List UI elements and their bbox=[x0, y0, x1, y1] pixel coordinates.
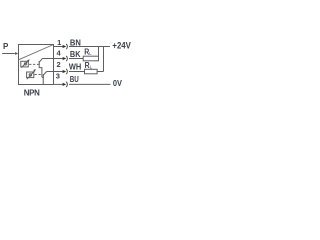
svg-text:BN: BN bbox=[70, 39, 81, 48]
svg-text:P: P bbox=[3, 42, 9, 51]
svg-text:0V: 0V bbox=[113, 78, 122, 88]
svg-text:1: 1 bbox=[57, 38, 61, 47]
svg-text:+24V: +24V bbox=[112, 41, 130, 51]
svg-text:BK: BK bbox=[70, 50, 81, 59]
svg-text:NPN: NPN bbox=[24, 88, 40, 97]
svg-text:4: 4 bbox=[57, 49, 62, 58]
svg-text:WH: WH bbox=[69, 63, 82, 72]
svg-text:BU: BU bbox=[70, 75, 79, 84]
svg-text:L: L bbox=[89, 51, 92, 56]
svg-text:3: 3 bbox=[56, 72, 60, 81]
svg-text:L: L bbox=[90, 64, 93, 69]
svg-text:2: 2 bbox=[57, 60, 61, 69]
